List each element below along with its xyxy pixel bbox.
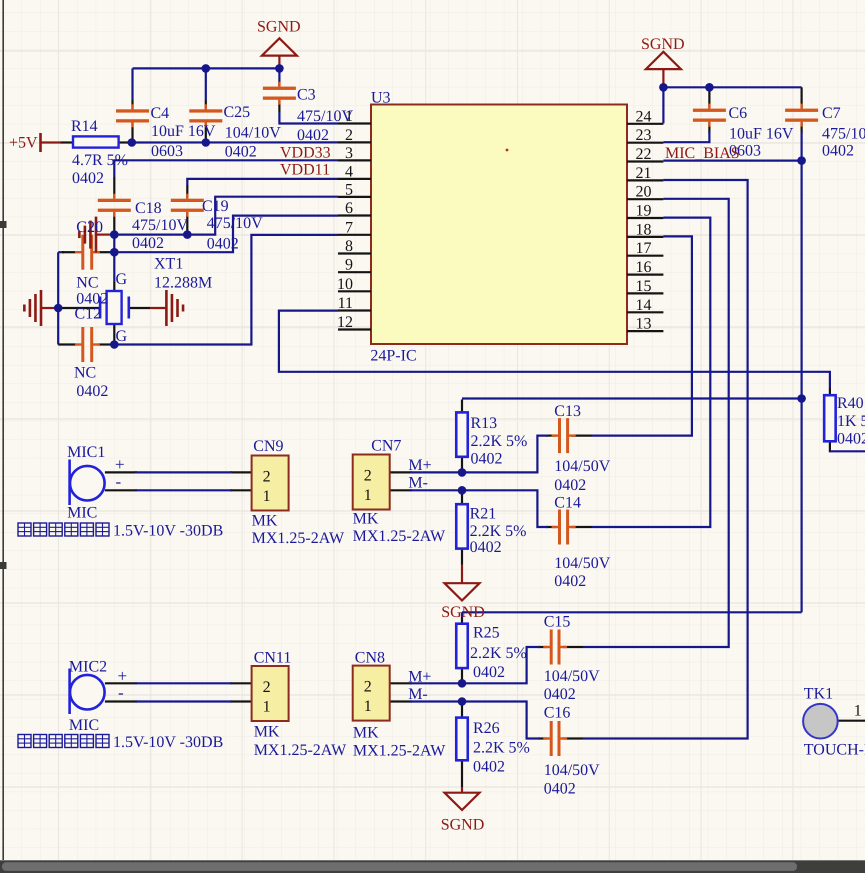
svg-text:M-: M- (408, 686, 428, 703)
svg-text:MK: MK (353, 725, 379, 742)
svg-text:1.5V-10V -30DB: 1.5V-10V -30DB (113, 523, 223, 540)
wire CN7 pin1 (390, 489, 412, 491)
touch pad TK1 (803, 704, 838, 739)
ground SGND (top right) (641, 36, 685, 86)
resistor R25 (456, 624, 468, 668)
svg-text:MIC: MIC (67, 505, 97, 522)
wire R21 pins (461, 490, 463, 504)
svg-text:R25: R25 (473, 625, 500, 642)
svg-text:2: 2 (263, 679, 271, 696)
svg-text:8: 8 (345, 238, 353, 255)
svg-text:M+: M+ (408, 457, 431, 474)
resistor R21 (456, 504, 468, 548)
wire (462, 611, 802, 613)
svg-text:VDD11: VDD11 (280, 162, 330, 179)
wire (410, 647, 540, 683)
wire (133, 67, 280, 69)
label quanzhixiang line1 1.5V-10V -30DB (18, 523, 223, 540)
wire C16 leads (538, 737, 548, 739)
svg-text:18: 18 (636, 221, 652, 238)
wire (113, 252, 115, 282)
svg-text:CN8: CN8 (355, 650, 385, 667)
power port +5V (9, 133, 61, 152)
svg-text:0402: 0402 (473, 664, 505, 681)
svg-text:MK: MK (254, 724, 280, 741)
resistor R13 (456, 412, 468, 456)
wire C13 leads (546, 435, 556, 437)
wire (583, 180, 748, 739)
capacitor C20 (75, 235, 100, 270)
wire (58, 251, 64, 253)
svg-text:0402: 0402 (297, 127, 329, 144)
svg-text:10: 10 (337, 276, 353, 293)
svg-text:CN11: CN11 (254, 650, 292, 667)
svg-text:M+: M+ (408, 669, 431, 686)
svg-text:2: 2 (364, 679, 372, 696)
svg-text:SGND: SGND (441, 604, 485, 621)
wire crystal G top pin (113, 282, 115, 291)
svg-text:C13: C13 (554, 403, 581, 420)
wire (410, 702, 540, 739)
wire C25 pins (205, 100, 207, 109)
svg-text:104/50V: 104/50V (554, 458, 610, 475)
microphone MIC2 (70, 669, 105, 715)
svg-text:475/10V: 475/10V (207, 215, 263, 232)
sheet border (0, 0, 7, 860)
junction (458, 679, 467, 688)
svg-text:0402: 0402 (554, 573, 586, 590)
wire R13 pins (461, 400, 463, 413)
sgnd stub R21 (461, 565, 463, 583)
svg-text:17: 17 (636, 240, 652, 257)
earth ground (at C18 junction) (79, 217, 112, 253)
connector CN8 (353, 666, 390, 721)
svg-text:C18: C18 (135, 200, 162, 217)
svg-text:0402: 0402 (544, 781, 576, 798)
wire (800, 399, 802, 613)
wire (279, 112, 338, 124)
junction (110, 340, 119, 349)
IC U3 24P-IC (337, 90, 663, 365)
svg-text:12: 12 (337, 314, 353, 331)
wire C19 pins (186, 185, 188, 199)
svg-text:1: 1 (263, 699, 271, 716)
resistor R26 (456, 718, 468, 761)
wire C20 row (62, 251, 76, 253)
svg-text:MX1.25-2AW: MX1.25-2AW (353, 743, 446, 760)
svg-text:1: 1 (854, 703, 862, 720)
svg-text:0402: 0402 (225, 144, 257, 161)
svg-text:1.5V-10V -30DB: 1.5V-10V -30DB (113, 734, 223, 751)
wire (114, 216, 338, 253)
wire (131, 68, 133, 100)
wire R25 pins (461, 617, 463, 624)
svg-text:2.2K 5%: 2.2K 5% (473, 740, 530, 757)
crystal XT1 (100, 291, 129, 324)
connector CN7 (353, 455, 390, 510)
svg-text:XT1: XT1 (154, 256, 183, 273)
capacitor C18 (98, 194, 131, 217)
junction (202, 138, 211, 147)
junction (275, 64, 284, 73)
svg-text:0402: 0402 (132, 235, 164, 252)
svg-text:MIC1: MIC1 (67, 444, 105, 461)
wire (279, 311, 830, 388)
svg-text:TK1: TK1 (804, 686, 833, 703)
wire (410, 490, 548, 527)
svg-text:1: 1 (364, 487, 372, 504)
svg-text:11: 11 (338, 295, 353, 312)
junction (202, 64, 211, 73)
svg-text:24P-IC: 24P-IC (370, 348, 416, 365)
wire (113, 235, 115, 253)
svg-text:104/50V: 104/50V (554, 555, 610, 572)
wire C4 pins (131, 100, 133, 109)
capacitor C16 (543, 721, 567, 756)
svg-text:0402: 0402 (837, 431, 865, 448)
svg-text:C12: C12 (75, 306, 102, 323)
wire (410, 436, 548, 473)
svg-text:6: 6 (345, 200, 353, 217)
svg-text:0402: 0402 (76, 383, 108, 400)
capacitor C3 (263, 82, 296, 105)
capacitor C19 (171, 194, 204, 217)
wire (114, 235, 338, 345)
wire C6 pins (708, 87, 710, 108)
svg-text:C14: C14 (554, 495, 581, 512)
svg-text:0402: 0402 (72, 170, 104, 187)
wire TK1 pin 1 (838, 720, 865, 722)
wire R40 pins (829, 388, 831, 395)
wire (663, 160, 801, 162)
svg-text:R14: R14 (71, 118, 98, 135)
svg-text:R26: R26 (473, 720, 500, 737)
svg-text:R40: R40 (837, 395, 864, 412)
wire MIC1 - (105, 489, 137, 491)
svg-text:3: 3 (345, 145, 353, 162)
wire C12 row (58, 343, 76, 345)
svg-text:0402: 0402 (207, 236, 239, 253)
wire (663, 131, 709, 142)
svg-text:21: 21 (636, 165, 652, 182)
wire (187, 179, 338, 185)
svg-text:2.2K 5%: 2.2K 5% (470, 645, 527, 662)
svg-text:C6: C6 (729, 105, 748, 122)
connector CN9 (252, 456, 289, 511)
connector CN11 (252, 666, 289, 721)
svg-text:2.2K 5%: 2.2K 5% (470, 523, 527, 540)
wire (135, 489, 232, 491)
svg-text:C20: C20 (76, 219, 103, 236)
junction (797, 156, 806, 165)
wire (830, 450, 865, 452)
wire crystal pins (58, 307, 100, 309)
svg-text:2: 2 (345, 127, 353, 144)
scrollbar (0, 860, 865, 873)
svg-text:5: 5 (345, 181, 353, 198)
resistor R14 (73, 136, 119, 147)
svg-text:12.288M: 12.288M (154, 275, 212, 292)
wire (135, 700, 232, 702)
capacitor C15 (543, 630, 567, 665)
wire C3 pins (278, 81, 280, 87)
svg-text:C15: C15 (544, 614, 571, 631)
sgnd stub R26 (461, 787, 463, 793)
svg-text:TOUCH-P: TOUCH-P (804, 742, 865, 759)
junction (458, 468, 467, 477)
svg-text:22: 22 (636, 146, 652, 163)
svg-text:0402: 0402 (470, 539, 502, 556)
svg-text:-: - (118, 683, 124, 702)
wire MIC2 - (105, 700, 137, 702)
svg-text:C7: C7 (822, 105, 841, 122)
wire (800, 161, 802, 399)
svg-text:23: 23 (636, 127, 652, 144)
earth ground (right of crystal) (150, 290, 183, 326)
wire (57, 252, 59, 344)
svg-text:9: 9 (345, 257, 353, 274)
ground SGND (below R26) (441, 793, 485, 834)
junction (128, 138, 137, 147)
svg-text:CN7: CN7 (371, 438, 401, 455)
svg-text:VDD33: VDD33 (280, 145, 331, 162)
svg-text:10uF 16V: 10uF 16V (729, 126, 794, 143)
wire C15 leads (538, 646, 548, 648)
svg-text:2: 2 (263, 469, 271, 486)
junction (110, 248, 119, 257)
junction (110, 230, 119, 239)
svg-text:0402: 0402 (544, 686, 576, 703)
svg-text:104/10V: 104/10V (225, 125, 281, 142)
svg-text:0402: 0402 (822, 143, 854, 160)
wire (800, 131, 802, 161)
svg-text:0603: 0603 (151, 143, 183, 160)
wire (592, 218, 710, 527)
svg-text:C16: C16 (544, 705, 571, 722)
svg-text:MK: MK (252, 513, 278, 530)
wire MIC2 + (105, 682, 137, 684)
svg-text:MX1.25-2AW: MX1.25-2AW (254, 742, 347, 759)
wire C18 pins (113, 177, 115, 199)
wire (592, 236, 692, 435)
wire CN8 pin2 (389, 682, 412, 684)
svg-text:2.2K 5%: 2.2K 5% (471, 433, 528, 450)
wire (127, 141, 338, 143)
capacitor C14 (552, 510, 576, 545)
svg-text:-: - (116, 472, 122, 491)
svg-text:NC: NC (74, 365, 96, 382)
svg-text:1: 1 (263, 488, 271, 505)
svg-text:MX1.25-2AW: MX1.25-2AW (353, 528, 446, 545)
wire (114, 160, 338, 177)
svg-text:24: 24 (636, 108, 652, 125)
wire (583, 199, 729, 647)
svg-text:C3: C3 (297, 87, 316, 104)
svg-text:104/50V: 104/50V (544, 668, 600, 685)
svg-text:0402: 0402 (554, 477, 586, 494)
wire (205, 68, 207, 100)
svg-text:19: 19 (636, 203, 652, 220)
wire (135, 471, 232, 473)
wire (663, 87, 801, 123)
wire (135, 682, 232, 684)
svg-text:C25: C25 (224, 104, 251, 121)
svg-text:C4: C4 (151, 105, 170, 122)
wire R14 pins (60, 141, 73, 143)
svg-text:4: 4 (345, 163, 353, 180)
svg-text:0402: 0402 (471, 451, 503, 468)
wire C7 pins (800, 87, 802, 108)
microphone MIC1 (70, 460, 105, 506)
svg-text:475/10V: 475/10V (132, 217, 188, 234)
wire CN8 pin1 (389, 700, 412, 702)
svg-text:G: G (116, 328, 128, 345)
junction (54, 304, 63, 313)
svg-text:475/10V: 475/10V (297, 108, 353, 125)
capacitor C7 (785, 104, 818, 127)
svg-text:SGND: SGND (257, 19, 301, 36)
capacitor C13 (552, 418, 576, 453)
junction (458, 486, 467, 495)
svg-text:475/10V: 475/10V (822, 126, 865, 143)
ground SGND (top left) (257, 19, 301, 68)
wire (114, 197, 338, 235)
svg-text:M-: M- (408, 475, 428, 492)
svg-text:4.7R 5%: 4.7R 5% (72, 152, 128, 169)
svg-text:15: 15 (636, 278, 652, 295)
svg-text:10uF 16V: 10uF 16V (151, 123, 216, 140)
svg-text:U3: U3 (371, 90, 391, 107)
wire C14 leads (546, 526, 556, 528)
earth ground (left of crystal) (24, 290, 57, 326)
svg-text:0402: 0402 (473, 759, 505, 776)
svg-text:R21: R21 (470, 506, 497, 523)
svg-text:MIC_BIAS: MIC_BIAS (665, 145, 740, 162)
capacitor C25 (189, 104, 222, 127)
svg-text:7: 7 (345, 219, 353, 236)
svg-text:CN9: CN9 (253, 438, 283, 455)
wire (278, 68, 280, 81)
capacitor C6 (693, 104, 726, 127)
svg-text:G: G (116, 271, 128, 288)
svg-text:20: 20 (636, 184, 652, 201)
label quanzhixiang line2 1.5V-10V -30DB (18, 734, 223, 751)
wire (461, 612, 463, 617)
svg-text:16: 16 (636, 259, 652, 276)
svg-text:MK: MK (353, 511, 379, 528)
svg-text:MX1.25-2AW: MX1.25-2AW (252, 530, 345, 547)
svg-text:14: 14 (636, 297, 652, 314)
svg-text:104/50V: 104/50V (544, 762, 600, 779)
resistor R40 (824, 395, 836, 441)
junction (797, 394, 806, 403)
capacitor C4 (116, 104, 149, 127)
junction (183, 230, 192, 239)
svg-text:SGND: SGND (441, 817, 485, 834)
ground SGND (below R21) (441, 583, 485, 621)
junction (705, 83, 714, 92)
svg-text:2: 2 (364, 468, 372, 485)
junction (659, 83, 668, 92)
capacitor C12 (75, 327, 100, 362)
svg-text:MIC2: MIC2 (69, 659, 107, 676)
svg-text:1K 5%: 1K 5% (837, 413, 865, 430)
wire (462, 397, 802, 399)
svg-text:13: 13 (636, 316, 652, 333)
svg-text:R13: R13 (471, 415, 498, 432)
svg-text:NC: NC (76, 275, 98, 292)
svg-text:1: 1 (364, 698, 372, 715)
svg-text:SGND: SGND (641, 36, 685, 53)
svg-text:C19: C19 (202, 198, 229, 215)
junction (458, 697, 467, 706)
svg-text:+5V: +5V (9, 135, 38, 152)
wire MIC1 + (105, 471, 137, 473)
svg-text:MIC: MIC (69, 717, 99, 734)
wire R26 pins (461, 702, 463, 718)
wire CN7 pin2 (390, 471, 412, 473)
